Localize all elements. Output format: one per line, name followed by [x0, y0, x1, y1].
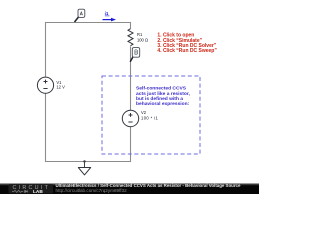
label V2 expression [141, 110, 159, 121]
ground junction dot [83, 160, 85, 162]
svg-text:acts just like a resistor,: acts just like a resistor, [136, 91, 190, 97]
svg-text:R1: R1 [137, 32, 143, 37]
blue annotation text [136, 86, 190, 108]
svg-text:CIRCUIT: CIRCUIT [13, 185, 51, 191]
svg-text:i1: i1 [105, 11, 109, 16]
svg-text:100 * i1: 100 * i1 [141, 116, 159, 121]
wire right upper R1 top lead [130, 22, 132, 29]
label R1 value [137, 32, 148, 43]
svg-text:Self-connected CCVS: Self-connected CCVS [136, 86, 187, 92]
wire top horizontal A to R1 [45, 22, 131, 24]
resistor R1 zigzag [128, 29, 133, 46]
ground symbol [78, 162, 90, 175]
svg-text:LAB: LAB [33, 189, 43, 194]
voltage source V2 (CCVS behavioral) [122, 110, 138, 126]
voltage source V1 [37, 77, 53, 93]
svg-text:but is defined with a: but is defined with a [136, 96, 183, 102]
wire left upper V1 top [45, 22, 47, 77]
dashed annotation box [102, 76, 200, 154]
node B flag [130, 48, 140, 62]
svg-text:V2: V2 [141, 110, 147, 115]
footer logo CIRCUIT LAB [9, 184, 54, 195]
svg-text:4. Click “Run DC Sweep”: 4. Click “Run DC Sweep” [157, 48, 217, 54]
wire right lower V2 bottom [130, 127, 132, 162]
node A flag [75, 9, 85, 22]
label V1 value [56, 80, 65, 90]
wire left lower V1 bottom [45, 93, 47, 162]
red instruction text [157, 33, 217, 55]
footer title text [56, 183, 242, 193]
wire bottom horizontal [45, 161, 131, 163]
svg-text:http://circuitlab.com/c7rq2ym8: http://circuitlab.com/c7rq2ym89ff32 [56, 188, 128, 193]
svg-text:12 V: 12 V [56, 84, 65, 89]
svg-text:behavioral expression:: behavioral expression: [136, 101, 190, 107]
footer bar [0, 183, 259, 194]
current arrow i1 [103, 11, 117, 21]
wire right middle R1 to V2 [130, 46, 132, 110]
svg-text:100 Ω: 100 Ω [137, 38, 148, 43]
